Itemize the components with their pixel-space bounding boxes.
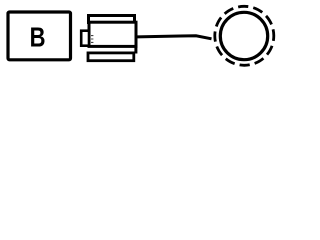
electromagnet U1 right-side connector [134, 45, 137, 54]
electromagnet U1 left tab [81, 31, 89, 46]
electromagnet U1 inner-wall tick marks [91, 36, 93, 43]
svg-text:B: B [30, 22, 46, 53]
gong solid circle [220, 12, 267, 59]
electromagnet U1 top plate [89, 16, 135, 23]
gong vibration dashed circle [215, 6, 274, 65]
electromagnet U1 coil body [89, 22, 136, 46]
electromagnet U1 bottom plate [88, 53, 134, 61]
box B (battery box outline) [8, 12, 71, 60]
wire from electromagnet to gong [137, 36, 212, 39]
